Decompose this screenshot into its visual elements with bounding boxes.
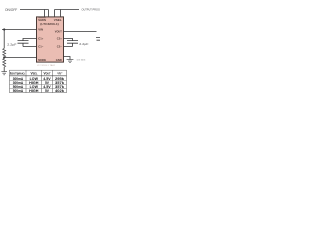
- svg-text:VSEL: VSEL: [31, 72, 39, 76]
- capacitor C2 2.2uF: [67, 41, 78, 44]
- svg-text:500mA: 500mA: [13, 89, 24, 93]
- svg-text:LTC3203-1 TA02: LTC3203-1 TA02: [37, 64, 56, 67]
- svg-text:ON/OFF: ON/OFF: [5, 8, 17, 12]
- svg-text:OUTPUT PROGRAM: OUTPUT PROGRAM: [82, 8, 101, 12]
- svg-text:IOUT(MAX): IOUT(MAX): [10, 72, 25, 76]
- wire C1+ branch: [23, 39, 37, 41]
- svg-text:VOUT: VOUT: [55, 29, 62, 33]
- wire C1- branch: [23, 43, 37, 46]
- capacitor C1 2.2uF: [18, 41, 29, 44]
- resistor R2: [3, 58, 6, 67]
- table grid outer: [10, 70, 67, 92]
- wire GND pin: [64, 57, 71, 60]
- wire VSEL pin legs: [55, 10, 61, 17]
- resistor R1: [3, 48, 6, 57]
- wire VIN down to R1: [3, 30, 5, 49]
- ground right: [67, 60, 74, 63]
- table grid rows: [10, 75, 67, 77]
- svg-text:(LTC3203-1): (LTC3203-1): [40, 22, 59, 26]
- svg-text:3203 TA03b: 3203 TA03b: [77, 59, 86, 62]
- capacitor COUT clipped at edge: [96, 38, 100, 41]
- pin label SHDN: [38, 17, 45, 19]
- svg-text:VOUT: VOUT: [44, 72, 52, 76]
- node VIN junction: [3, 28, 5, 30]
- svg-text:2.2µF: 2.2µF: [79, 42, 88, 46]
- wire tap to MODE: [4, 57, 36, 59]
- wire ON/OFF to SHDN: [20, 9, 49, 11]
- svg-text:HIGH: HIGH: [29, 89, 39, 93]
- wire C2- branch: [64, 43, 73, 46]
- wire C2+ branch: [64, 39, 73, 41]
- ground left: [1, 72, 7, 75]
- svg-text:“R”: “R”: [57, 71, 63, 75]
- wire SHDN pin legs: [45, 10, 49, 17]
- wire VIN input: [2, 29, 37, 31]
- svg-text:VIN: VIN: [38, 28, 43, 32]
- node divider tap junction: [3, 56, 5, 58]
- svg-text:402k: 402k: [55, 89, 64, 93]
- svg-text:C1+: C1+: [38, 36, 43, 40]
- wire VSEL bridge to OUTPUT PROGRAM: [55, 9, 80, 11]
- op IC U1 LTC3203-1 body: [37, 17, 64, 62]
- svg-text:C1−: C1−: [38, 44, 43, 48]
- svg-text:MODE: MODE: [38, 58, 46, 62]
- table grid columns: [26, 70, 53, 92]
- svg-text:GND: GND: [56, 58, 62, 62]
- svg-text:C2−: C2−: [57, 44, 62, 48]
- wire VOUT output: [64, 31, 97, 33]
- wire R2 to ground: [3, 67, 5, 72]
- svg-text:C2+: C2+: [57, 36, 62, 40]
- svg-text:2.2µF: 2.2µF: [7, 42, 16, 46]
